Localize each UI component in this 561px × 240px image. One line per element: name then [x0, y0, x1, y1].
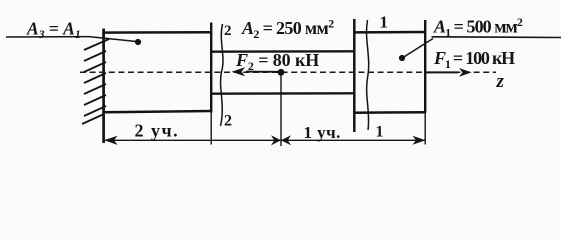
leader line from A1 label to segment 1: [403, 39, 433, 58]
bar segment 3 bottom edge: [102, 111, 212, 112]
svg-text:A2 = 250 мм2: A2 = 250 мм2: [241, 17, 334, 42]
wall hatching: [82, 39, 109, 124]
svg-text:1 уч.: 1 уч.: [304, 123, 341, 142]
dimension double arrowheads at section boundary: [271, 135, 281, 145]
bar segment 3 (left big block) top edge: [102, 31, 212, 34]
force F2 arrow (pointing left): [246, 71, 281, 73]
svg-text:z: z: [496, 71, 505, 92]
section line 2-2 (wavy): [221, 24, 223, 126]
bar segment 1 top edge: [353, 31, 426, 34]
extension line below segment-3 right edge: [210, 113, 212, 145]
extension line below segment-1 right edge: [424, 113, 426, 145]
svg-text:2 уч.: 2 уч.: [135, 121, 180, 141]
bar segment 1 bottom edge: [353, 111, 426, 114]
bar segment 1 (right block) left edge: [353, 19, 356, 132]
dashed axis centerline z: [80, 71, 496, 73]
force F2 application dot: [278, 69, 285, 76]
svg-text:A1 = 500 мм2: A1 = 500 мм2: [433, 15, 523, 40]
dimension line (bottom): [104, 139, 425, 141]
dimension arrowhead left (at wall): [104, 136, 117, 145]
svg-text:1: 1: [376, 124, 384, 141]
underline of A1 label: [432, 36, 561, 39]
underline of A3 label: [6, 36, 89, 38]
svg-text:1: 1: [380, 13, 389, 32]
svg-text:A3 = A1: A3 = A1: [26, 19, 81, 42]
bar segment 1 right edge (with overshoot): [424, 20, 426, 113]
svg-text:2: 2: [224, 113, 232, 130]
leader dot on segment 1: [399, 55, 405, 61]
bar segment 2 (middle thin bar) top edge: [211, 50, 353, 53]
force F1 arrow (pointing right): [426, 71, 458, 73]
fixed wall vertical line: [102, 29, 105, 144]
section line 1-1 (wavy): [367, 20, 369, 130]
bar segment 2 bottom edge: [211, 92, 353, 95]
svg-text:2: 2: [224, 23, 232, 39]
svg-text:F2 = 80 кН: F2 = 80 кН: [235, 50, 319, 73]
leader dot on segment 3: [135, 39, 141, 45]
svg-text:F1 = 100 кН: F1 = 100 кН: [433, 48, 515, 71]
bar segment 3 right edge (with overshoot): [210, 23, 212, 113]
dimension arrowhead right (at free end): [413, 136, 426, 145]
section boundary line below F2 dot: [280, 72, 282, 146]
leader line from A3 label to segment 3: [89, 37, 137, 42]
